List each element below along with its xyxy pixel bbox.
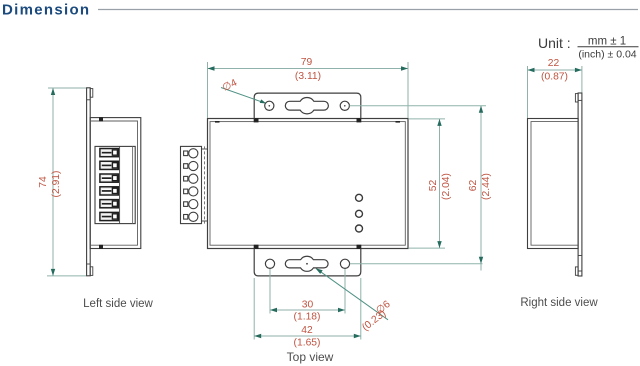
dimension 52: [409, 119, 445, 248]
left view body: [90, 118, 141, 249]
svg-text:Unit :: Unit :: [538, 35, 571, 51]
top flange left hole: [265, 101, 274, 110]
dimension 79: [208, 62, 409, 118]
bottom flange right hole: [340, 259, 349, 268]
svg-text:∅4: ∅4: [221, 77, 239, 93]
top flange right hole: [340, 101, 349, 110]
svg-text:(2.44): (2.44): [481, 173, 492, 200]
left view terminal screws (6): [100, 149, 118, 221]
svg-text:mm ± 1: mm ± 1: [588, 36, 626, 48]
right view 22 dimension: [528, 66, 582, 118]
svg-text:(1.65): (1.65): [294, 338, 321, 349]
left view body tab marks: [99, 117, 103, 249]
title Dimension: [2, 2, 638, 19]
dimension dia4 leader: [221, 77, 266, 103]
svg-text:Dimension: Dimension: [2, 2, 90, 19]
dimension 42: [254, 278, 361, 340]
dimension 62: [350, 106, 487, 271]
unit note: [538, 35, 639, 61]
dimension dia6 leader: [316, 268, 393, 333]
svg-text:Right side view: Right side view: [520, 297, 598, 309]
top view terminal block: [181, 146, 208, 223]
svg-text:(3.11): (3.11): [295, 71, 321, 82]
right view mounting plate: [575, 93, 582, 276]
svg-text:79: 79: [301, 57, 313, 68]
svg-text:(1.18): (1.18): [294, 312, 321, 323]
top view body: [208, 119, 409, 249]
top flange keyhole slot: [285, 98, 328, 114]
svg-text:52: 52: [428, 180, 439, 192]
svg-text:Top view: Top view: [287, 350, 334, 364]
svg-text:(2.04): (2.04): [441, 173, 452, 200]
svg-text:62: 62: [468, 180, 479, 192]
right view body: [528, 119, 579, 249]
svg-text:42: 42: [301, 325, 313, 336]
svg-text:(0.87): (0.87): [541, 72, 568, 83]
left view 74 dimension: [47, 88, 86, 276]
top mounting flange: [254, 93, 361, 118]
svg-text:(0.23): (0.23): [360, 308, 388, 333]
bottom flange left hole: [265, 259, 274, 268]
top view terminal screws: [184, 149, 198, 222]
svg-text:Left side view: Left side view: [83, 298, 153, 310]
bottom mounting flange: [254, 249, 361, 276]
left view 74 text: [38, 171, 62, 198]
left view terminal block: [95, 146, 135, 223]
left view mounting plate: [87, 88, 93, 276]
svg-text:(inch) ± 0.04: (inch) ± 0.04: [578, 49, 636, 61]
top view flange tabs: [215, 119, 400, 249]
bottom flange keyhole slot: [285, 256, 328, 271]
svg-text:74: 74: [38, 176, 49, 188]
svg-text:30: 30: [302, 300, 314, 311]
top view LEDs: [356, 194, 363, 232]
svg-text:(2.91): (2.91): [51, 171, 62, 198]
dimension 30: [270, 269, 345, 314]
svg-text:22: 22: [548, 58, 560, 69]
